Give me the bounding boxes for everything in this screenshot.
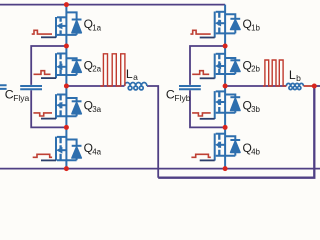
svg-text:2b: 2b	[251, 65, 260, 74]
gate signal Q2b	[192, 71, 209, 75]
svg-text:1a: 1a	[92, 24, 101, 33]
PWM pulse train b	[263, 60, 286, 86]
node top rail	[64, 2, 69, 7]
gate signal Q1a	[32, 30, 52, 34]
gate signal Q1b	[190, 30, 210, 34]
wire switch node a to L_a	[66, 85, 124, 87]
capacitor input (cut off at left edge)	[0, 85, 7, 89]
svg-text:1b: 1b	[251, 24, 260, 33]
transistor Q1a	[57, 16, 66, 18]
wire output stub right	[314, 85, 320, 87]
transistor Q4a	[57, 136, 66, 138]
transistor Q3a	[57, 94, 66, 96]
svg-text:4b: 4b	[251, 147, 260, 156]
inductor L_b	[286, 83, 303, 89]
svg-text:Flyb: Flyb	[174, 93, 190, 103]
svg-text:2a: 2a	[92, 65, 101, 74]
gate signal Q3a	[33, 113, 52, 116]
wire J1b to C_Flyb	[190, 46, 225, 85]
wire C_Flyb to J3b	[190, 90, 225, 127]
svg-text:3b: 3b	[251, 105, 260, 114]
MOSFET string vertical b	[224, 5, 226, 169]
node J4a	[64, 166, 69, 171]
gate signal Q3b	[192, 113, 211, 116]
svg-text:a: a	[133, 72, 138, 82]
svg-text:L: L	[289, 68, 296, 82]
top rail	[0, 4, 225, 6]
wire red lead L_b to output node	[304, 85, 313, 87]
node J3a	[64, 125, 69, 130]
svg-text:b: b	[296, 73, 301, 83]
transistor Q4b	[216, 133, 225, 135]
node J1b	[223, 44, 228, 49]
MOSFET string vertical a	[65, 5, 67, 169]
transistor Q2b	[216, 53, 225, 55]
wire J1a to C_Flya	[31, 46, 66, 85]
node J3b	[223, 125, 228, 130]
transistor Q2a	[57, 53, 66, 55]
gate signal Q4a	[33, 154, 52, 157]
node J2a	[64, 84, 69, 89]
transistor Q3b	[216, 90, 225, 92]
svg-text:3a: 3a	[92, 105, 101, 114]
capacitor C_Flyb	[179, 86, 201, 89]
capacitor C_Flya	[20, 86, 42, 89]
inductor L_a	[125, 82, 147, 89]
wire output bus bottom and right	[158, 86, 314, 178]
wire switch node b to L_b	[225, 85, 286, 87]
node J4b	[223, 166, 228, 171]
wire C_Flya to J3a	[31, 90, 66, 127]
ground rail	[0, 168, 320, 170]
svg-text:4a: 4a	[92, 147, 101, 156]
node output	[312, 84, 317, 89]
transistor Q1b	[216, 11, 225, 13]
gate signal Q4b	[191, 154, 210, 157]
node J1a	[64, 44, 69, 49]
gate signal Q2a	[34, 71, 51, 75]
wire L_a output down	[147, 86, 158, 178]
node J2b	[223, 84, 228, 89]
svg-text:L: L	[126, 67, 133, 81]
svg-text:Flya: Flya	[13, 93, 29, 103]
PWM pulse train a	[100, 54, 125, 86]
